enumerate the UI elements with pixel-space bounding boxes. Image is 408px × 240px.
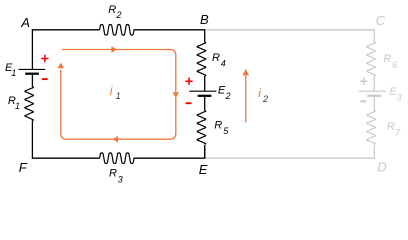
current arrow i2 (orange, up) — [245, 75, 247, 123]
wire E1-R1 — [31, 74, 33, 87]
svg-text:R: R — [214, 119, 222, 131]
svg-text:R: R — [212, 52, 220, 64]
svg-text:1: 1 — [116, 91, 121, 101]
wire top A-B — [32, 29, 99, 32]
svg-text:i: i — [258, 86, 261, 100]
svg-text:4: 4 — [221, 59, 226, 69]
plus sign E2 — [185, 78, 192, 85]
loop arrow top (right) — [111, 46, 117, 53]
wire R3-E — [134, 145, 205, 158]
battery E1 long plate — [19, 68, 46, 70]
svg-text:R: R — [387, 121, 395, 133]
svg-text:F: F — [19, 160, 28, 175]
minus sign E3 (gray) — [360, 100, 366, 102]
battery E2 short plate — [198, 95, 212, 97]
battery E2 long plate — [189, 90, 216, 92]
wire R5-E — [204, 145, 206, 158]
wire E3-R7 (gray) — [373, 96, 375, 111]
svg-text:R: R — [383, 53, 391, 65]
svg-text:C: C — [376, 13, 386, 28]
minus sign E2 — [186, 102, 192, 104]
plus sign E1 — [41, 55, 48, 62]
svg-text:3: 3 — [118, 174, 123, 184]
wire bottom gray E-D — [205, 145, 374, 158]
svg-text:7: 7 — [395, 127, 401, 137]
loop arrow bottom (left) — [113, 136, 119, 143]
wire R4-E2 — [204, 76, 206, 91]
svg-text:B: B — [200, 12, 209, 27]
resistor R7 (gray) — [367, 110, 376, 144]
svg-text:3: 3 — [397, 93, 402, 103]
svg-text:1: 1 — [15, 101, 20, 111]
svg-text:i: i — [110, 84, 113, 98]
svg-text:2: 2 — [225, 91, 231, 101]
svg-text:5: 5 — [223, 126, 229, 136]
svg-text:2: 2 — [262, 94, 268, 104]
battery E3 long plate (gray) — [359, 90, 386, 92]
wire top gray B-C — [205, 30, 374, 42]
svg-text:A: A — [20, 15, 30, 30]
loop arrow right (down) — [173, 92, 180, 98]
wire top R2-B — [134, 30, 205, 42]
svg-text:R: R — [109, 168, 117, 180]
svg-text:E: E — [199, 162, 208, 177]
battery E3 short plate (gray) — [367, 95, 381, 97]
svg-text:1: 1 — [11, 68, 16, 78]
resistor R5 — [197, 110, 206, 144]
resistor R2 — [100, 25, 134, 36]
loop arrow left end (up) — [58, 63, 65, 69]
resistor R4 — [197, 42, 206, 76]
resistor R6 (gray) — [367, 42, 376, 76]
wire R6-E3 (gray) — [373, 76, 375, 91]
wire left A-E1 — [31, 30, 33, 70]
mesh loop i1 (orange) — [61, 50, 176, 140]
svg-text:R: R — [108, 4, 116, 16]
battery E1 short plate — [25, 73, 39, 75]
minus sign E1 — [42, 78, 48, 80]
wire R1-F — [32, 121, 99, 159]
svg-text:D: D — [377, 160, 386, 175]
resistor R3 — [100, 153, 134, 164]
svg-text:6: 6 — [392, 60, 397, 70]
svg-text:2: 2 — [116, 10, 122, 20]
resistor R1 — [25, 87, 34, 121]
wire E2-R5 — [204, 96, 206, 111]
plus sign E3 (gray) — [360, 78, 367, 85]
